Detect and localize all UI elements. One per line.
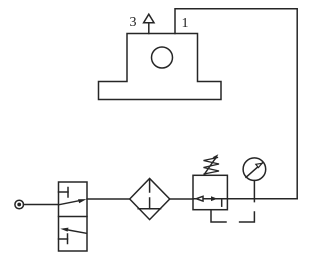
svg-text:1: 1 xyxy=(182,16,189,31)
svg-text:3: 3 xyxy=(130,15,137,30)
